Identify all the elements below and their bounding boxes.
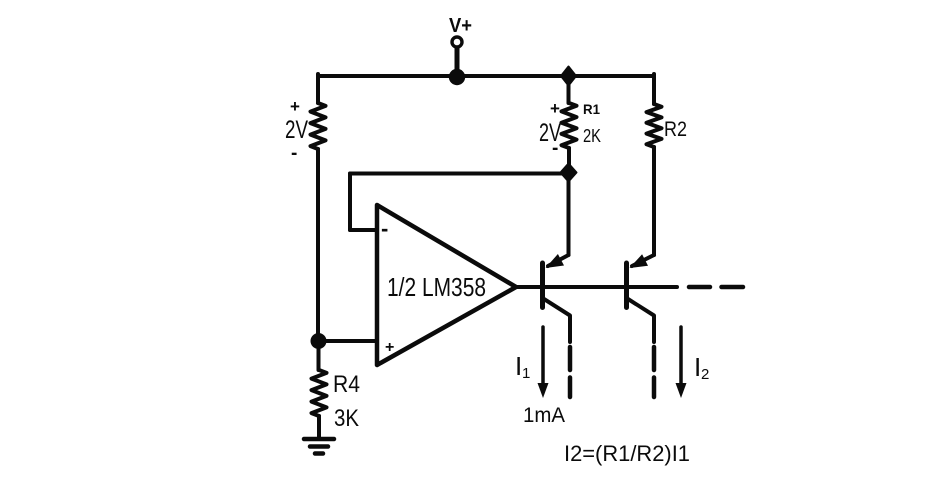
op-amp U1 triangle (377, 205, 516, 365)
transistor Q2 emitter arrowhead (630, 254, 649, 268)
wire feedback vertical (348, 174, 352, 231)
svg-text:+: + (385, 339, 394, 356)
wire op-amp output to bases (516, 285, 677, 289)
wire R4 to ground (317, 416, 321, 438)
arrow I1 (541, 327, 545, 388)
node V+ junction on top rail (449, 69, 465, 85)
svg-text:V+: V+ (449, 15, 472, 37)
svg-text:-: - (381, 216, 388, 241)
svg-text:2K: 2K (583, 126, 601, 146)
terminal V+ (452, 37, 462, 47)
transistor Q1 emitter arrowhead (546, 254, 565, 268)
svg-text:1: 1 (522, 365, 530, 382)
wire feedback horizontal (350, 172, 569, 176)
arrowhead I2 (676, 383, 687, 398)
node feedback junction (561, 164, 577, 182)
wire inverting input stub (350, 228, 377, 232)
svg-text:3K: 3K (334, 405, 359, 432)
wire emitter Q1 diagonal (548, 255, 569, 266)
svg-text:+: + (290, 97, 300, 116)
arrow I2 (679, 327, 683, 388)
wire emitter Q2 vertical (652, 147, 656, 255)
wire R1 branch upper (567, 76, 571, 103)
transistor Q1 base bar (540, 263, 545, 308)
wire R2 branch upper (652, 74, 656, 104)
node noninverting junction (311, 333, 327, 349)
svg-text:-: - (552, 138, 558, 159)
resistor R4 (312, 370, 327, 416)
node R1 top junction (561, 67, 576, 86)
battery 2V left (311, 103, 326, 149)
svg-text:R2: R2 (664, 118, 687, 141)
svg-text:1mA: 1mA (523, 404, 565, 427)
svg-text:+: + (550, 99, 560, 118)
wire emitter Q2 diagonal (632, 255, 654, 266)
wire plus input (319, 339, 378, 343)
wire dashed base line continuation (689, 285, 743, 290)
wire R1 to emitter junction (567, 148, 571, 173)
wire left branch lower (316, 149, 320, 341)
wire junction to R4 (317, 341, 321, 370)
transistor Q1 collector diagonal (544, 299, 570, 342)
ground (304, 439, 334, 454)
transistor Q2 base bar (624, 263, 629, 308)
svg-text:I2=(R1/R2)I1: I2=(R1/R2)I1 (564, 441, 690, 466)
wire dashed collector Q1 (568, 347, 573, 397)
arrowhead I1 (538, 383, 549, 398)
svg-text:R1: R1 (583, 101, 600, 117)
resistor R1 (562, 103, 577, 148)
svg-text:2: 2 (701, 366, 709, 383)
wire V+ stem (455, 47, 460, 77)
transistor Q2 collector diagonal (628, 299, 654, 342)
svg-text:2V: 2V (285, 116, 308, 144)
svg-text:-: - (291, 143, 297, 164)
wire left branch upper (316, 74, 320, 103)
resistor R2 (647, 104, 662, 147)
wire dashed collector Q2 (652, 347, 657, 397)
wire top rail (318, 74, 654, 78)
svg-text:1/2 LM358: 1/2 LM358 (387, 272, 486, 302)
wire emitter Q1 vertical (567, 173, 571, 256)
svg-text:R4: R4 (333, 371, 360, 398)
